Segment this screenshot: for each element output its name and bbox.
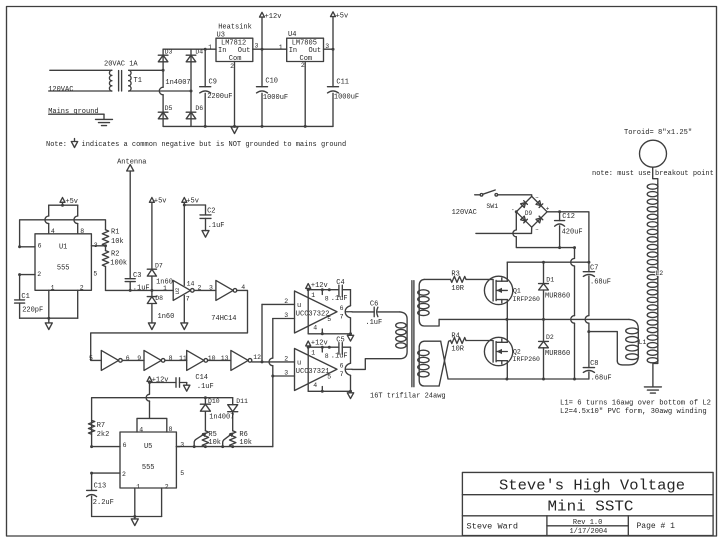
- svg-text:1000uF: 1000uF: [263, 94, 288, 102]
- svg-text:R2: R2: [111, 250, 119, 258]
- svg-text:2: 2: [230, 63, 234, 70]
- svg-text:11: 11: [179, 355, 187, 362]
- svg-text:6: 6: [340, 305, 344, 312]
- wire U1 pin6: [20, 246, 35, 248]
- svg-text:In: In: [289, 47, 297, 55]
- svg-text:Steve's High Voltage: Steve's High Voltage: [499, 479, 685, 495]
- wire U5 supply hop over D10 rail: [146, 394, 149, 401]
- wire common negative rail: [163, 125, 333, 127]
- wire U4 out to +5v: [324, 48, 334, 50]
- svg-text:5: 5: [327, 316, 331, 323]
- svg-text:L2=4.5x10" PVC form, 30awg win: L2=4.5x10" PVC form, 30awg winding: [560, 408, 707, 416]
- common negative arrow under D8: [148, 323, 155, 330]
- inverter chain gate D: [231, 350, 248, 370]
- capacitor C6: [373, 307, 375, 317]
- capacitor C14: [150, 382, 177, 384]
- svg-text:1n4007: 1n4007: [165, 79, 190, 87]
- wire 120VAC bottom leg to bridge: [476, 232, 532, 234]
- svg-text:D6: D6: [195, 105, 203, 112]
- wire U5 pin3: [176, 446, 180, 448]
- svg-text:4: 4: [313, 382, 317, 389]
- svg-text:UCC37321: UCC37321: [296, 368, 330, 376]
- capacitor C5: [338, 343, 340, 354]
- svg-text:D1: D1: [546, 276, 554, 283]
- node +12v for U5: [147, 377, 152, 382]
- wire R4 to Q2 gate: [466, 340, 493, 342]
- diode D1 MUR860: [543, 262, 545, 283]
- wire inverter1 out to inverter2 in: [194, 289, 216, 291]
- svg-text:+5v: +5v: [336, 12, 349, 20]
- transformer GDT secondary lower (crossed): [419, 341, 441, 386]
- wire R7/diode rail: [92, 398, 233, 447]
- transistor Q1 IRFP260: [484, 276, 512, 304]
- svg-text:3: 3: [284, 312, 288, 319]
- svg-text:10R: 10R: [451, 285, 464, 293]
- inductor L2 secondary: [657, 184, 659, 364]
- svg-text:1: 1: [311, 350, 315, 357]
- svg-text:D5: D5: [165, 105, 173, 112]
- svg-text:1000uF: 1000uF: [334, 93, 359, 101]
- capacitor C7 .68uF: [588, 262, 590, 272]
- svg-text:D9: D9: [525, 210, 533, 217]
- svg-text:.1uF: .1uF: [197, 383, 214, 391]
- svg-text:D2: D2: [546, 334, 554, 341]
- svg-text:SW1: SW1: [486, 203, 498, 210]
- common negative arrow under 74HC14: [181, 323, 188, 330]
- svg-text:10R: 10R: [451, 345, 464, 353]
- node +12v driver supply: [306, 284, 311, 289]
- wire C6 to GDT primary: [378, 311, 400, 313]
- wire SW1 to bridge top: [498, 195, 532, 197]
- svg-text:U1: U1: [59, 243, 67, 251]
- svg-text:D11: D11: [236, 398, 248, 405]
- svg-text:1: 1: [279, 44, 283, 51]
- svg-text:.1uF: .1uF: [133, 285, 150, 293]
- svg-text:555: 555: [57, 265, 70, 273]
- svg-text:Antenna: Antenna: [117, 158, 146, 166]
- svg-text:C8: C8: [590, 360, 598, 368]
- svg-text:C4: C4: [336, 279, 344, 287]
- wire U1 pin8 supply with hop: [77, 205, 79, 216]
- common negative arrow under U1: [48, 318, 50, 323]
- wire gate D output to driver inputs pin2 bus: [252, 361, 295, 363]
- wire Q2 source to bottom rail: [506, 361, 508, 379]
- switch SW1: [475, 194, 481, 196]
- wire bridge minus down with hop: [515, 212, 517, 230]
- svg-text:R5: R5: [208, 431, 216, 439]
- transformer GDT primary winding: [352, 312, 407, 370]
- diode D2 MUR860: [543, 319, 545, 341]
- svg-text:Out: Out: [309, 47, 322, 55]
- svg-text:9: 9: [137, 355, 141, 362]
- node +5v for D7: [149, 198, 154, 203]
- svg-text:+12v: +12v: [311, 340, 328, 348]
- transformer GDT secondary upper: [419, 279, 439, 326]
- svg-text:Toroid= 8"x1.25": Toroid= 8"x1.25": [624, 129, 692, 137]
- svg-text:MUR860: MUR860: [545, 293, 570, 301]
- svg-text:4: 4: [51, 228, 55, 235]
- wire bottom rail: [448, 378, 589, 380]
- svg-text:5: 5: [93, 270, 97, 277]
- svg-text:U5: U5: [144, 443, 152, 451]
- node junction secondary taps: [162, 69, 165, 72]
- svg-text:5: 5: [180, 470, 184, 477]
- wire U5 pin6: [92, 446, 120, 448]
- svg-text:u: u: [297, 360, 301, 368]
- svg-text:C3: C3: [133, 272, 141, 280]
- svg-text:1: 1: [163, 285, 167, 292]
- wire U1 ground rail: [48, 290, 50, 318]
- transistor Q2 IRFP260: [484, 337, 512, 365]
- common negative arrow under U3: [231, 127, 238, 134]
- common negative arrow driver: [350, 334, 352, 336]
- wire U3 Com to common rail: [234, 62, 236, 127]
- svg-text:.68uF: .68uF: [591, 374, 612, 382]
- common negative arrow driver: [350, 391, 352, 393]
- capacitor C1: [19, 275, 21, 300]
- svg-text:note: must use breakout point: note: must use breakout point: [592, 170, 714, 178]
- wire secondary bottom: [129, 90, 191, 92]
- svg-text:L1: L1: [639, 339, 647, 346]
- svg-text:Note:: Note:: [46, 141, 67, 149]
- svg-text:7: 7: [340, 313, 344, 320]
- node C7/C8 junction to L1 return: [587, 330, 590, 333]
- svg-text:1n60: 1n60: [158, 313, 175, 321]
- svg-text:1: 1: [208, 44, 212, 51]
- node +5v above U1: [60, 198, 65, 203]
- wire L2 bottom to ground: [653, 363, 658, 387]
- svg-text:C6: C6: [370, 301, 378, 309]
- common negative arrow under C2: [202, 231, 209, 238]
- diode D7 1n60: [151, 202, 153, 269]
- svg-text:C1: C1: [21, 293, 29, 301]
- inductor L1 primary: [617, 319, 638, 365]
- wire R3 to Q1 gate: [466, 278, 493, 280]
- svg-text:3: 3: [255, 43, 259, 50]
- svg-text:C13: C13: [94, 482, 107, 490]
- ground mains earth symbol: [96, 118, 113, 120]
- svg-text:1: 1: [136, 484, 140, 491]
- svg-text:Out: Out: [238, 47, 251, 55]
- svg-text:C10: C10: [265, 78, 278, 86]
- svg-text:R7: R7: [97, 422, 105, 430]
- svg-text:74HC14: 74HC14: [211, 315, 236, 323]
- transformer GDT core: [411, 281, 413, 387]
- node +12v supply: [260, 12, 265, 17]
- svg-text:.1uF: .1uF: [331, 295, 348, 303]
- svg-text:120VAC: 120VAC: [452, 209, 477, 217]
- svg-text:Rev 1.0: Rev 1.0: [573, 519, 602, 527]
- IC U5 555: [120, 432, 176, 488]
- wire mid rail (half-bridge output to L1): [439, 318, 629, 320]
- common negative arrow after C14: [184, 385, 190, 391]
- svg-text:2: 2: [198, 284, 202, 291]
- diode D8 1n60: [151, 290, 153, 296]
- svg-text:IRFP260: IRFP260: [513, 296, 540, 303]
- wire gateA to gateB: [122, 359, 144, 361]
- svg-text:L2: L2: [655, 270, 663, 277]
- wire DC+ rail to regulators: [163, 48, 216, 50]
- wire GDT upper secondary to R3: [424, 278, 450, 280]
- svg-text:1n4007: 1n4007: [209, 413, 234, 421]
- svg-text:D8: D8: [155, 295, 163, 302]
- svg-text:+12v: +12v: [311, 282, 328, 290]
- title block: [462, 472, 713, 535]
- svg-text:13: 13: [221, 355, 229, 362]
- wire U3 out to U4 in: [253, 48, 287, 50]
- svg-text:2: 2: [301, 62, 305, 69]
- svg-text:C12: C12: [562, 213, 575, 221]
- svg-text:420uF: 420uF: [562, 228, 583, 236]
- wire R1 feed from pin6/2 node: [20, 220, 106, 247]
- wire U1 pin2: [20, 274, 35, 276]
- inverter U2B: [216, 280, 233, 300]
- wire feedback inverter2 out down-left to inverter chain in: [91, 290, 248, 360]
- wire 120VAC primary top: [50, 69, 112, 71]
- svg-text:6: 6: [340, 362, 344, 369]
- svg-text:5: 5: [327, 374, 331, 381]
- svg-text:MUR860: MUR860: [545, 350, 570, 358]
- svg-text:2.2uF: 2.2uF: [93, 499, 114, 507]
- svg-text:1/17/2004: 1/17/2004: [569, 528, 607, 536]
- wire gateC to gateD: [208, 359, 231, 361]
- wire negative rail from bridge with hops: [574, 248, 576, 259]
- svg-text:Steve Ward: Steve Ward: [467, 522, 519, 532]
- node +12v driver supply: [306, 341, 311, 346]
- svg-text:8: 8: [325, 353, 329, 360]
- wire Q2 drain to mid rail: [506, 319, 508, 342]
- svg-text:12: 12: [253, 354, 261, 361]
- svg-text:2200uF: 2200uF: [207, 93, 232, 101]
- wire U1 pin3 output: [91, 245, 105, 247]
- inverter chain gate A: [101, 350, 118, 370]
- svg-text:1: 1: [311, 292, 315, 299]
- svg-text:100k: 100k: [110, 260, 127, 268]
- capacitor C13: [91, 473, 93, 490]
- svg-text:3: 3: [209, 284, 213, 291]
- wire top rail (bridge + to Q1/D1/C7): [507, 261, 589, 263]
- svg-text:.68uF: .68uF: [590, 279, 611, 287]
- wire crossover to bottom rail: [441, 341, 448, 379]
- node +5v supply: [331, 12, 336, 17]
- svg-text:D7: D7: [155, 262, 163, 269]
- wire bridge left vertical: [162, 49, 164, 87]
- svg-text:2: 2: [122, 471, 126, 478]
- wire crossover to R4: [439, 341, 450, 387]
- capacitor C3: [125, 278, 135, 280]
- wire gateB to gateC: [165, 359, 187, 361]
- svg-text:+5v: +5v: [186, 197, 199, 205]
- svg-text:R1: R1: [111, 228, 119, 236]
- svg-text:u: u: [297, 302, 301, 310]
- svg-text:6: 6: [123, 442, 127, 449]
- wire U5 ground rail: [134, 488, 136, 517]
- svg-text:-: -: [511, 206, 515, 213]
- svg-text:8: 8: [325, 295, 329, 302]
- svg-text:3: 3: [284, 370, 288, 377]
- wire U5 pin2: [92, 472, 120, 474]
- wire pin3 bus from 555 U5: [272, 319, 274, 359]
- wire U5 pin3 output rail: [176, 446, 272, 448]
- svg-text:7: 7: [340, 371, 344, 378]
- wire 74HC14 pin7 to ground: [183, 296, 185, 323]
- svg-text:+12v: +12v: [265, 13, 282, 21]
- svg-text:Page # 1: Page # 1: [637, 522, 676, 531]
- svg-text:10k: 10k: [111, 238, 124, 246]
- svg-text:8: 8: [169, 426, 173, 433]
- svg-text:C14: C14: [195, 374, 208, 382]
- svg-text:Q2: Q2: [513, 348, 521, 355]
- wire secondary top: [129, 69, 163, 71]
- svg-text:C11: C11: [336, 78, 349, 86]
- wire U5 pins 4/8 supply loop: [137, 418, 167, 432]
- svg-text:16T trifilar 24awg: 16T trifilar 24awg: [370, 392, 446, 400]
- capacitor C9: [204, 49, 206, 86]
- capacitor C12 420uF: [559, 212, 561, 221]
- wire bridge plus to C12 and down: [547, 212, 589, 262]
- svg-text:+5v: +5v: [154, 197, 167, 205]
- inverter U2A 74HC14: [173, 280, 190, 300]
- svg-text:5: 5: [89, 355, 93, 362]
- svg-text:R6: R6: [239, 431, 247, 439]
- inverter chain gate B: [144, 350, 161, 370]
- wire U1 pin4 supply with hop: [48, 205, 50, 216]
- op-amp driver UCC37321: [295, 349, 338, 391]
- ground L2 earth: [644, 386, 661, 388]
- svg-text:6: 6: [38, 242, 42, 249]
- svg-text:1: 1: [51, 284, 55, 291]
- rectifier D9 bridge: [516, 196, 547, 227]
- svg-text:4: 4: [139, 426, 143, 433]
- IC U1 555: [35, 234, 91, 290]
- svg-text:C2: C2: [207, 207, 215, 215]
- wire U4 Com to common rail: [304, 62, 306, 127]
- svg-text:3: 3: [180, 442, 184, 449]
- svg-text:120VAC: 120VAC: [48, 86, 73, 94]
- svg-text:8: 8: [80, 228, 84, 235]
- svg-text:.1uF: .1uF: [365, 319, 382, 327]
- inverter chain gate C: [187, 350, 204, 370]
- op-amp driver UCC37322: [295, 291, 338, 333]
- svg-text:7: 7: [186, 295, 190, 302]
- capacitor C2: [184, 204, 205, 206]
- svg-text:T1: T1: [134, 77, 142, 85]
- svg-text:2k2: 2k2: [97, 431, 110, 439]
- node +5v for 74HC14: [182, 198, 187, 203]
- svg-text:2: 2: [284, 355, 288, 362]
- wire 120VAC primary bottom: [49, 90, 112, 92]
- wire R2 output to inverter input: [106, 289, 174, 291]
- svg-text:indicates a common negative bu: indicates a common negative but is NOT g…: [82, 141, 347, 149]
- svg-text:C5: C5: [336, 337, 344, 345]
- transformer T1: [109, 70, 111, 75]
- wire bridge right vertical: [190, 49, 192, 126]
- svg-text:UCC37322: UCC37322: [296, 311, 330, 319]
- svg-text:.1uF: .1uF: [208, 222, 225, 230]
- svg-text:IRFP260: IRFP260: [513, 356, 540, 363]
- wire Q1 source to mid rail: [506, 300, 508, 320]
- svg-text:2: 2: [37, 271, 41, 278]
- svg-text:L1= 6 turns 16awg over bottom: L1= 6 turns 16awg over bottom of L2: [560, 399, 711, 407]
- wire UCC37322 output to C6: [352, 311, 374, 313]
- svg-text:4: 4: [313, 324, 317, 331]
- svg-text:Q1: Q1: [513, 287, 521, 294]
- common negative arrow under U5: [134, 517, 136, 519]
- svg-text:2: 2: [165, 484, 169, 491]
- capacitor C11: [332, 49, 334, 86]
- svg-text:220pF: 220pF: [22, 306, 43, 314]
- svg-text:2: 2: [284, 298, 288, 305]
- wire toroid to L2: [653, 167, 658, 184]
- svg-text:U2: U2: [174, 288, 181, 295]
- capacitor C4: [338, 285, 340, 296]
- svg-text:20VAC 1A: 20VAC 1A: [104, 61, 138, 69]
- svg-text:2: 2: [80, 284, 84, 291]
- capacitor C10: [261, 49, 263, 86]
- svg-text:Heatsink: Heatsink: [218, 24, 252, 32]
- wire Q1 drain to top rail: [506, 262, 508, 281]
- svg-text:In: In: [218, 47, 226, 55]
- svg-text:C9: C9: [209, 78, 217, 86]
- svg-text:Mini SSTC: Mini SSTC: [548, 500, 634, 516]
- svg-text:555: 555: [142, 464, 155, 472]
- svg-text:14: 14: [187, 280, 195, 287]
- svg-text:.1uF: .1uF: [331, 353, 348, 361]
